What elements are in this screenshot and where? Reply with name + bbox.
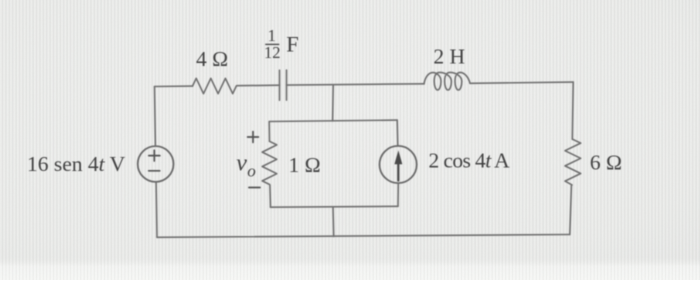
wire inner loop left lower [269, 185, 272, 207]
current source arrow head [394, 150, 402, 164]
svg-text:v: v [236, 151, 247, 177]
resistor R 1ohm [262, 141, 277, 184]
wire junction top (node to inner loop) [332, 85, 335, 121]
wire left branch upper [154, 87, 157, 147]
current source I1 circle [380, 146, 417, 183]
wire resistor to capacitor [237, 84, 280, 87]
resistor R 6ohm [565, 139, 581, 185]
wire inner loop left upper [268, 122, 270, 142]
svg-text:4 Ω: 4 Ω [196, 47, 228, 71]
svg-text:16 sen 4t V: 16 sen 4t V [27, 152, 126, 176]
polarity plus for vo [248, 132, 259, 143]
wire inner loop right upper [396, 120, 399, 146]
wire 6ohm to bottom right corner [570, 185, 572, 235]
voltage source minus sign [149, 170, 160, 172]
wire right branch upper [571, 82, 574, 139]
wire top rail left segment [155, 85, 193, 87]
capacitor C 1/12F right plate [286, 70, 288, 100]
polarity minus for vo [249, 187, 260, 189]
svg-text:o: o [247, 161, 256, 180]
svg-text:12: 12 [264, 43, 281, 62]
svg-text:2 cos 4t A: 2 cos 4t A [429, 148, 511, 172]
wire inductor to top right corner [470, 82, 573, 83]
resistor R 4ohm [193, 78, 237, 93]
wire bottom rail [157, 235, 570, 238]
wire junction bottom [332, 207, 335, 237]
svg-text:2 H: 2 H [433, 44, 465, 68]
wire inner loop bottom edge [271, 205, 399, 208]
wire inner loop right lower [397, 183, 399, 206]
svg-text:6 Ω: 6 Ω [590, 151, 622, 175]
voltage source plus sign [149, 150, 160, 161]
voltage source V1 circle [138, 146, 174, 182]
wire capacitor to inductor [287, 84, 425, 85]
current source arrow shaft [397, 162, 399, 181]
inductor L 2H [424, 72, 470, 90]
svg-text:F: F [286, 31, 299, 56]
wire inner loop top edge [269, 120, 397, 121]
capacitor C 1/12F left plate [279, 70, 281, 100]
label capacitor fraction bar [265, 43, 279, 45]
svg-text:1 Ω: 1 Ω [289, 153, 321, 177]
wire left branch lower [155, 182, 158, 237]
